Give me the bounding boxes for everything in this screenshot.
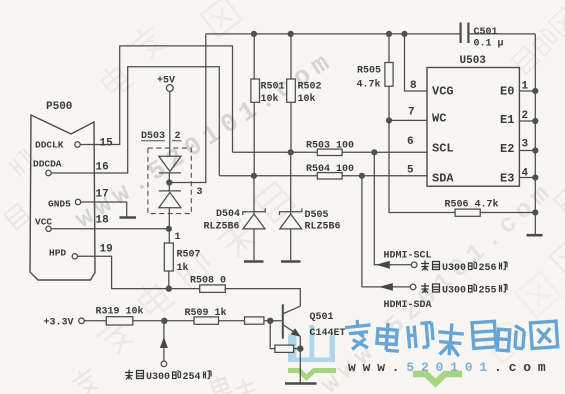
pin 15 terminal DDCLK — [75, 142, 80, 147]
wire R507 to HPD row — [168, 271, 170, 289]
wire D503 pin1 to VCC node and R507 — [168, 208, 170, 243]
resistor R508 — [200, 285, 226, 293]
resistor R503 — [317, 149, 342, 155]
wire pin15 DDCLK to riser — [80, 46, 232, 152]
resistor R501 — [253, 34, 255, 176]
wire HDMI-SCL tap — [374, 152, 411, 264]
wire pin19 HPD down to R508 row — [78, 256, 200, 288]
resistor R506 — [455, 209, 480, 216]
wire +3.3V to R319 — [84, 320, 106, 322]
ground Q501 — [285, 382, 317, 385]
svg-text:HPD: HPD — [49, 248, 66, 259]
svg-text:17: 17 — [96, 189, 109, 201]
node rail-VCG — [401, 31, 407, 37]
D503 bottom diode — [159, 191, 181, 208]
pin 19 terminal HPD — [72, 254, 77, 259]
wire pin16 DDCDA to riser — [51, 67, 219, 176]
svg-text:7: 7 — [408, 107, 415, 119]
connector P500 body — [30, 115, 95, 280]
svg-text:Q501: Q501 — [310, 312, 334, 323]
wire pin17 GND5 to ground — [81, 202, 127, 217]
svg-text:E1: E1 — [500, 113, 514, 127]
pin 17 terminal GND5 — [75, 199, 80, 204]
note from U300 pin256 (HDMI-SCL) — [421, 261, 440, 271]
svg-text:D504: D504 — [216, 209, 240, 220]
svg-text:8: 8 — [410, 80, 417, 92]
+5V terminal — [166, 85, 173, 92]
resistor R505 — [388, 34, 390, 121]
node rail-R505 — [386, 31, 392, 37]
svg-text:16: 16 — [96, 162, 109, 174]
svg-text:10k: 10k — [261, 93, 279, 105]
node SCL-R502 — [288, 149, 294, 155]
HDMI-SDA terminal — [410, 284, 416, 290]
svg-text:R501: R501 — [261, 82, 285, 93]
right column E0-E3 to ground — [534, 34, 536, 234]
terminal U300 254 — [161, 361, 167, 367]
arrow U300 254 — [160, 337, 168, 348]
wire R506 to right column — [480, 212, 535, 214]
wire R505 node to R506 row — [389, 120, 455, 212]
svg-text:SDA: SDA — [432, 172, 454, 186]
svg-text:5: 5 — [407, 165, 414, 177]
svg-text:3: 3 — [522, 139, 529, 151]
svg-text:1: 1 — [522, 81, 529, 93]
wire R509 to series resistor — [219, 320, 245, 322]
node rail-R502 — [288, 31, 294, 37]
node Q501 emitter — [297, 345, 303, 351]
D503 label underlines — [141, 140, 182, 142]
svg-text:U300: U300 — [442, 286, 466, 297]
svg-text:R506 4.7k: R506 4.7k — [445, 199, 499, 211]
node D503 pin1 VCC — [166, 226, 172, 232]
svg-text:R508 0: R508 0 — [190, 276, 226, 287]
IC U503 box — [427, 68, 519, 187]
arrow Q501 emitter — [291, 328, 301, 337]
svg-text:RLZ5B6: RLZ5B6 — [204, 222, 240, 233]
arrow HDMI-SDA — [379, 283, 393, 291]
wire SCL row to U503 pin6 — [233, 151, 428, 153]
svg-text:U300: U300 — [442, 263, 466, 274]
ground right column — [527, 234, 543, 237]
svg-text:1: 1 — [175, 232, 181, 243]
svg-text:D505: D505 — [305, 210, 329, 221]
series base resistor — [245, 317, 264, 324]
svg-text:VCC: VCC — [35, 217, 52, 228]
node R319-U300 — [161, 318, 167, 324]
wire Q501 emitter to ground — [299, 336, 301, 382]
wire VCG row riser — [405, 34, 428, 91]
svg-text:E3: E3 — [500, 172, 514, 186]
svg-text:+5V: +5V — [157, 76, 175, 87]
ground GND5 — [120, 216, 137, 219]
svg-text:254: 254 — [183, 372, 201, 383]
wire pin18 VCC to D503 pin1 node — [51, 228, 169, 230]
zener D504 — [243, 176, 265, 260]
D503 top diode — [159, 156, 181, 173]
svg-text:DDCLK: DDCLK — [35, 140, 64, 151]
U503 right pin stubs — [519, 91, 535, 178]
svg-text:GND5: GND5 — [48, 199, 71, 210]
+5V rail — [206, 33, 536, 35]
svg-text:R502: R502 — [298, 82, 322, 93]
wire +5V terminal to D503 pin2 — [169, 91, 171, 156]
node Q501 base — [267, 318, 273, 324]
svg-text:C144ET: C144ET — [310, 328, 346, 339]
svg-text:6: 6 — [407, 136, 414, 148]
pin 18 terminal VCC — [46, 226, 51, 231]
dual diode D503 dashed box — [148, 148, 191, 214]
node rail-R501 — [251, 31, 257, 37]
+3.3V terminal — [79, 318, 85, 324]
resistor R509 — [194, 317, 219, 324]
ground D505 — [281, 260, 301, 263]
node D503 pin3 — [166, 179, 172, 185]
wire R508 to Q501 collector — [225, 289, 300, 307]
svg-text:SCL: SCL — [432, 142, 454, 156]
svg-text:3: 3 — [197, 187, 203, 198]
note from U300 pin254 (Q501 base) — [125, 370, 144, 380]
HDMI-SCL terminal — [411, 262, 417, 268]
node E1 — [532, 118, 538, 124]
wire WC row — [389, 119, 427, 121]
svg-text:+3.3V: +3.3V — [44, 318, 74, 329]
svg-text:R503 100: R503 100 — [306, 141, 354, 152]
svg-text:R507: R507 — [177, 250, 201, 261]
note from U300 pin255 (HDMI-SDA) — [421, 283, 440, 293]
node SDA-HDMI — [359, 173, 365, 179]
svg-text:VCG: VCG — [432, 85, 454, 99]
svg-text:19: 19 — [100, 244, 113, 256]
resistor R504 — [317, 173, 342, 179]
site logo green swoosh — [288, 371, 336, 378]
wire to Q501 base — [264, 320, 282, 322]
wire SDA row to U503 pin5 — [219, 175, 427, 177]
svg-text:P500: P500 — [46, 101, 72, 113]
svg-text:C501: C501 — [474, 27, 498, 38]
base-emitter resistor — [270, 321, 300, 349]
svg-text:RLZ5B6: RLZ5B6 — [305, 222, 341, 233]
svg-text:DDCDA: DDCDA — [33, 159, 62, 170]
zener D505 — [280, 152, 302, 260]
svg-text:HDMI-SCL: HDMI-SCL — [384, 251, 432, 262]
svg-text:4.7k: 4.7k — [357, 79, 381, 91]
wire HDMI-SDA tap — [362, 176, 410, 287]
svg-text:R509 1k: R509 1k — [185, 307, 227, 319]
svg-text:U300: U300 — [146, 372, 170, 383]
svg-text:1k: 1k — [177, 262, 189, 274]
svg-text:www.520101.com: www.520101.com — [348, 360, 552, 375]
svg-text:R504 100: R504 100 — [306, 164, 354, 175]
node E3 — [532, 174, 538, 180]
wire U300 pin254 input — [163, 323, 165, 361]
node SCL-HDMI — [371, 149, 377, 155]
resistor R502 — [290, 34, 292, 152]
node E0 — [532, 88, 538, 94]
svg-text:2: 2 — [522, 110, 529, 122]
node SDA-R501 — [251, 173, 257, 179]
resistor R507 — [164, 243, 173, 271]
svg-text:4: 4 — [522, 168, 529, 180]
svg-text:18: 18 — [96, 215, 110, 227]
resistor R319 — [106, 317, 133, 325]
capacitor C501 — [461, 23, 469, 44]
svg-text:E2: E2 — [500, 142, 514, 156]
pin 16 terminal DDCDA — [46, 170, 51, 175]
site logo icon — [288, 325, 335, 362]
svg-text:WC: WC — [432, 112, 446, 126]
svg-text:R505: R505 — [357, 66, 381, 77]
site logo blue calligraphy 家电维修资料网 — [344, 319, 557, 357]
node R506 — [532, 209, 538, 215]
node E2 — [532, 147, 538, 153]
node HPD-R507 — [166, 285, 172, 291]
watermark: faint diagonal site marks — [97, 0, 241, 98]
transistor Q501 — [282, 304, 284, 338]
svg-text:255: 255 — [479, 286, 497, 297]
svg-text:E0: E0 — [500, 85, 514, 99]
arrow HDMI-SCL — [376, 261, 390, 269]
svg-text:HDMI-SDA: HDMI-SDA — [384, 300, 432, 311]
ground D504 — [244, 260, 264, 263]
svg-text:15: 15 — [100, 138, 114, 150]
svg-text:10k: 10k — [298, 93, 316, 105]
svg-text:U503: U503 — [460, 55, 487, 67]
svg-text:256: 256 — [479, 263, 497, 274]
svg-text:0.1 μ: 0.1 μ — [474, 39, 504, 50]
D503 internal wire — [168, 173, 170, 191]
wire +5V rail to D503 pin3 — [169, 34, 206, 183]
node WC-R505 — [386, 117, 392, 123]
svg-text:R319 10k: R319 10k — [96, 306, 144, 318]
wire R319 to R509 — [133, 320, 194, 322]
